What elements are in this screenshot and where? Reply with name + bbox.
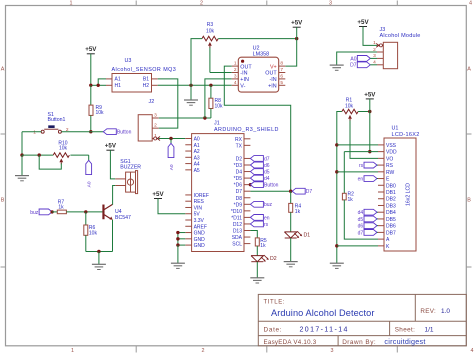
svg-text:1k: 1k	[260, 243, 266, 249]
svg-text:A0: A0	[87, 181, 93, 187]
svg-text:U2: U2	[253, 45, 260, 51]
svg-text:3.3V: 3.3V	[194, 218, 205, 224]
svg-text:D2: D2	[270, 256, 277, 262]
svg-text:buz: buz	[30, 210, 39, 216]
svg-text:3: 3	[154, 112, 157, 118]
svg-text:AREF: AREF	[194, 224, 207, 230]
svg-text:D7: D7	[350, 63, 357, 69]
svg-text:+IN: +IN	[268, 84, 277, 90]
svg-text:2017-11-14: 2017-11-14	[300, 326, 349, 333]
svg-text:Arduino Alcohol Detector: Arduino Alcohol Detector	[271, 308, 375, 318]
svg-text:RX: RX	[235, 137, 243, 143]
svg-text:BC547: BC547	[115, 215, 131, 221]
svg-text:D8: D8	[236, 196, 243, 202]
svg-text:J2: J2	[149, 99, 155, 105]
svg-text:+5V: +5V	[357, 19, 369, 26]
svg-text:+5V: +5V	[85, 46, 97, 53]
svg-text:+5V: +5V	[291, 20, 303, 27]
svg-text:OUT: OUT	[240, 64, 252, 70]
svg-text:A2: A2	[194, 149, 200, 155]
svg-text:2: 2	[66, 127, 69, 133]
svg-text:rs: rs	[264, 222, 269, 228]
svg-text:H1: H1	[115, 83, 122, 89]
svg-text:d6: d6	[264, 163, 270, 169]
svg-text:A0: A0	[169, 164, 175, 170]
svg-text:1k: 1k	[348, 197, 354, 203]
svg-text:2: 2	[202, 348, 205, 354]
svg-text:BUZZER: BUZZER	[120, 164, 141, 170]
svg-text:R3: R3	[207, 22, 214, 28]
svg-text:LCD-16X2: LCD-16X2	[392, 132, 420, 138]
svg-text:H2: H2	[143, 83, 150, 89]
svg-text:2: 2	[234, 67, 237, 73]
svg-text:5V: 5V	[194, 212, 201, 218]
svg-text:16x2 LCD: 16x2 LCD	[406, 183, 412, 206]
svg-text:GND: GND	[194, 237, 206, 243]
svg-text:10k: 10k	[206, 29, 215, 35]
svg-text:Date:: Date:	[264, 326, 283, 333]
svg-text:d5: d5	[264, 169, 270, 175]
svg-text:Alcohol Module: Alcohol Module	[380, 33, 421, 39]
svg-text:*D6: *D6	[234, 183, 243, 189]
svg-text:B1: B1	[143, 77, 149, 83]
svg-text:RS: RS	[386, 163, 394, 169]
svg-text:LM358: LM358	[253, 52, 269, 58]
svg-text:A4: A4	[194, 162, 200, 168]
svg-text:ARDUINO_R3_SHIELD: ARDUINO_R3_SHIELD	[214, 127, 279, 133]
svg-text:D12: D12	[233, 222, 242, 228]
svg-text:*D5: *D5	[234, 176, 243, 182]
svg-text:+5V: +5V	[364, 91, 376, 98]
svg-text:*D3: *D3	[234, 163, 243, 169]
svg-text:GND: GND	[194, 231, 206, 237]
svg-text:DB7: DB7	[386, 230, 396, 236]
svg-text:*D9: *D9	[234, 202, 243, 208]
svg-text:DB6: DB6	[386, 224, 396, 230]
svg-text:D2: D2	[236, 156, 243, 162]
svg-text:A1: A1	[115, 77, 121, 83]
svg-text:d4: d4	[358, 210, 364, 216]
svg-text:A5: A5	[194, 168, 200, 174]
svg-text:Alcohol_SENSOR MQ3: Alcohol_SENSOR MQ3	[112, 67, 177, 73]
svg-text:EasyEDA V4.10.3: EasyEDA V4.10.3	[264, 339, 317, 346]
svg-text:D13: D13	[233, 229, 242, 235]
svg-text:4: 4	[234, 80, 237, 86]
svg-text:VSS: VSS	[386, 143, 397, 149]
svg-text:6: 6	[280, 74, 283, 80]
svg-text:B: B	[467, 198, 471, 204]
svg-text:VO: VO	[386, 156, 393, 162]
svg-text:3: 3	[329, 1, 332, 7]
svg-text:5: 5	[280, 80, 283, 86]
svg-text:VIN: VIN	[194, 205, 203, 211]
svg-text:DB1: DB1	[386, 190, 396, 196]
svg-text:*D10: *D10	[231, 209, 242, 215]
svg-text:Drawn By:: Drawn By:	[342, 339, 376, 346]
svg-text:10k: 10k	[215, 103, 224, 109]
svg-text:1.0: 1.0	[441, 308, 450, 315]
svg-text:SCL: SCL	[232, 242, 242, 248]
svg-text:4: 4	[471, 348, 474, 354]
svg-text:10k: 10k	[96, 110, 105, 116]
svg-text:A0: A0	[350, 56, 356, 62]
svg-text:D7: D7	[236, 189, 243, 195]
svg-text:8: 8	[280, 61, 283, 67]
svg-text:d7: d7	[264, 156, 270, 162]
svg-text:RES: RES	[194, 199, 205, 205]
svg-text:1k: 1k	[295, 209, 301, 215]
svg-text:+5V: +5V	[105, 143, 117, 150]
svg-text:DB0: DB0	[386, 183, 396, 189]
svg-text:10k: 10k	[345, 103, 354, 109]
svg-text:buz: buz	[264, 202, 273, 208]
svg-text:GND: GND	[194, 243, 206, 249]
svg-text:10k: 10k	[59, 146, 68, 152]
svg-text:d5: d5	[358, 217, 364, 223]
svg-text:1: 1	[33, 130, 36, 136]
svg-text:Button: Button	[117, 130, 132, 136]
svg-text:2: 2	[200, 1, 203, 7]
svg-text:IOREF: IOREF	[194, 193, 209, 199]
svg-text:V-: V-	[240, 84, 245, 90]
svg-text:REV:: REV:	[420, 308, 436, 315]
svg-text:DB4: DB4	[386, 210, 396, 216]
svg-text:DB3: DB3	[386, 203, 396, 209]
svg-text:*D11: *D11	[231, 215, 242, 221]
svg-text:3: 3	[234, 74, 237, 80]
svg-text:+5V: +5V	[152, 191, 164, 198]
svg-text:1k: 1k	[58, 205, 64, 211]
svg-text:V+: V+	[270, 64, 277, 70]
svg-text:D7: D7	[306, 189, 313, 195]
svg-text:-IN: -IN	[270, 77, 277, 83]
svg-text:Button: Button	[264, 183, 279, 189]
svg-text:D4: D4	[236, 170, 243, 176]
svg-text:3: 3	[331, 348, 334, 354]
svg-text:U3: U3	[125, 58, 132, 64]
svg-text:SDA: SDA	[232, 235, 243, 241]
svg-text:OUT: OUT	[265, 71, 277, 77]
svg-text:A1: A1	[194, 143, 200, 149]
svg-text:A3: A3	[194, 155, 200, 161]
svg-text:U1: U1	[392, 126, 399, 132]
svg-text:A: A	[467, 67, 471, 73]
svg-text:J1: J1	[214, 120, 220, 126]
svg-text:D1: D1	[304, 233, 311, 239]
svg-text:1: 1	[234, 61, 237, 67]
svg-text:VDD: VDD	[386, 150, 397, 156]
svg-text:Button1: Button1	[48, 117, 66, 123]
svg-text:Sheet:: Sheet:	[395, 326, 416, 333]
svg-text:d4: d4	[264, 176, 270, 182]
svg-text:DB5: DB5	[386, 217, 396, 223]
svg-text:-IN: -IN	[240, 71, 247, 77]
svg-text:en: en	[358, 176, 364, 182]
svg-text:A: A	[1, 67, 5, 73]
svg-text:+IN: +IN	[240, 77, 249, 83]
svg-text:7: 7	[280, 67, 283, 73]
svg-text:circuitdigest: circuitdigest	[384, 337, 425, 346]
svg-text:d7: d7	[358, 230, 364, 236]
svg-text:1: 1	[70, 1, 73, 7]
svg-text:4: 4	[469, 1, 472, 7]
svg-text:10k: 10k	[89, 230, 98, 236]
svg-text:RW: RW	[386, 170, 395, 176]
svg-text:DB2: DB2	[386, 197, 396, 203]
svg-text:TX: TX	[236, 143, 243, 149]
svg-text:B: B	[1, 198, 5, 204]
svg-text:1/1: 1/1	[425, 326, 434, 333]
svg-text:1: 1	[71, 348, 74, 354]
svg-text:A0: A0	[194, 137, 200, 143]
svg-text:d6: d6	[358, 224, 364, 230]
svg-text:rs: rs	[359, 163, 364, 169]
svg-text:TITLE:: TITLE:	[264, 299, 286, 305]
svg-text:2: 2	[154, 123, 157, 129]
svg-text:en: en	[264, 215, 270, 221]
